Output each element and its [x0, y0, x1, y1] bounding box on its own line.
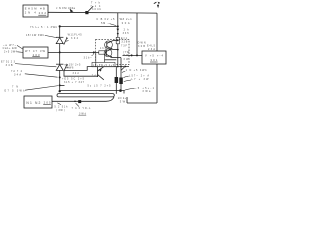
svg-text:30A: 30A [122, 21, 130, 25]
arrowhead down on rail [117, 29, 120, 32]
svg-text:7h L+ 5 : 1 3Wb: 7h L+ 5 : 1 3Wb [30, 26, 58, 29]
right rail x157 [156, 13, 158, 103]
black component D1 [115, 77, 119, 83]
arrowhead 304a [70, 9, 74, 13]
box N1N2 205 [24, 96, 52, 108]
junction 304b [85, 11, 88, 14]
svg-text:315 + 7 347: 315 + 7 347 [64, 81, 85, 84]
svg-text:5c L5 7 2+5: 5c L5 7 2+5 [88, 85, 112, 88]
strip label box [92, 62, 115, 66]
svg-text:7 4 h YO-L: 7 4 h YO-L [72, 107, 92, 110]
label 7h wire [30, 26, 58, 29]
svg-text:C B F2 +5: C B F2 +5 [96, 18, 115, 21]
leader 304b [88, 6, 93, 11]
figure arrow 300 [154, 2, 157, 3]
dashed box [96, 39, 129, 64]
left labels column [1, 44, 25, 93]
transistor T2 [104, 49, 112, 57]
svg-text:3Wd: 3Wd [79, 112, 87, 115]
svg-text:23A: 23A [148, 48, 155, 51]
rail lower x116.3 [115, 67, 117, 94]
svg-text:203: 203 [33, 53, 40, 57]
label 304a [56, 6, 76, 10]
bottom border [127, 102, 157, 104]
wire lower to coil [52, 97, 114, 101]
stacked value labels right of rail [121, 29, 130, 62]
svg-text:+E5 5C 2+5: +E5 5C 2+5 [62, 78, 85, 81]
svg-text:30B: 30B [138, 45, 145, 48]
svg-text:205: 205 [44, 101, 51, 105]
bottom-left labels [54, 105, 91, 115]
svg-text:N1 N2: N1 N2 [26, 101, 40, 105]
right labels with leaders [126, 69, 155, 93]
wire inner bottom [105, 59, 117, 61]
left bus x59.7 [59, 26, 61, 37]
wire y52.4 [48, 51, 99, 53]
wire y67.2 [64, 67, 129, 71]
svg-text:5W6: 5W6 [67, 67, 74, 70]
svg-text:5M ~: 5M ~ [101, 22, 110, 25]
node dot [117, 25, 119, 27]
wire y90.6 [60, 90, 121, 92]
svg-text:304: 304 [71, 37, 79, 40]
svg-text:335: 335 [123, 32, 130, 35]
svg-text:34B: 34B [6, 64, 13, 67]
label 302 [118, 97, 129, 104]
svg-text:V +5 +-4: V +5 +-4 [145, 54, 164, 58]
svg-text:34d: 34d [73, 73, 80, 75]
wire main top bus [48, 11, 157, 14]
svg-text:3Wa: 3Wa [142, 90, 151, 93]
label 30A [120, 18, 133, 25]
label CB 30A left [96, 18, 115, 25]
zener diode 306 [56, 63, 63, 65]
resistor on rail [116, 37, 119, 43]
svg-text:73F: 73F [121, 45, 128, 48]
solenoid coil 302 [57, 94, 114, 97]
rail B x118 upper [117, 13, 119, 29]
svg-text:74): 74) [92, 75, 98, 78]
labels DWN 30B [138, 42, 156, 51]
svg-text:202: 202 [39, 11, 47, 15]
box governor 203 [23, 47, 48, 58]
svg-text:31b~: 31b~ [84, 56, 93, 59]
svg-text:PW: PW [123, 54, 129, 57]
label 15f leader [26, 34, 45, 37]
wire to osc box [123, 54, 143, 56]
resistor R1h2 [99, 51, 106, 54]
svg-text:| 3W |: | 3W | [56, 109, 65, 112]
svg-text:W# 2+1: W# 2+1 [120, 18, 133, 21]
label 304b [90, 2, 101, 11]
transistor T3 [97, 69, 99, 77]
transistor T1 [105, 41, 113, 49]
rail A x137 [136, 13, 138, 55]
black component D2 [119, 78, 123, 85]
leaders left [17, 45, 23, 49]
zener diode 304 [56, 36, 63, 38]
box oscillator 301 [142, 51, 166, 64]
vertical x121 [120, 58, 122, 91]
svg-text:3W: 3W [123, 58, 129, 61]
svg-text:2+5 3W4: 2+5 3W4 [4, 51, 18, 54]
svg-text:J N FM 304a: J N FM 304a [56, 6, 76, 10]
svg-text:34A: 34A [14, 74, 21, 77]
svg-text:1N 2+1: 1N 2+1 [118, 97, 129, 100]
label block mid [62, 78, 111, 88]
svg-text:301: 301 [150, 58, 157, 62]
wire y26.4 [60, 25, 118, 27]
label 31b [84, 56, 93, 59]
svg-text:15f 1W 3Wb: 15f 1W 3Wb [26, 34, 45, 37]
svg-text:1 N +5 3Wb: 1 N +5 3Wb [126, 69, 148, 72]
svg-text:3W2: 3W2 [120, 100, 129, 104]
box sensor 202 [23, 5, 48, 17]
svg-text:32B: 32B [121, 41, 127, 44]
svg-text:5.2 51h: 5.2 51h [54, 105, 68, 108]
